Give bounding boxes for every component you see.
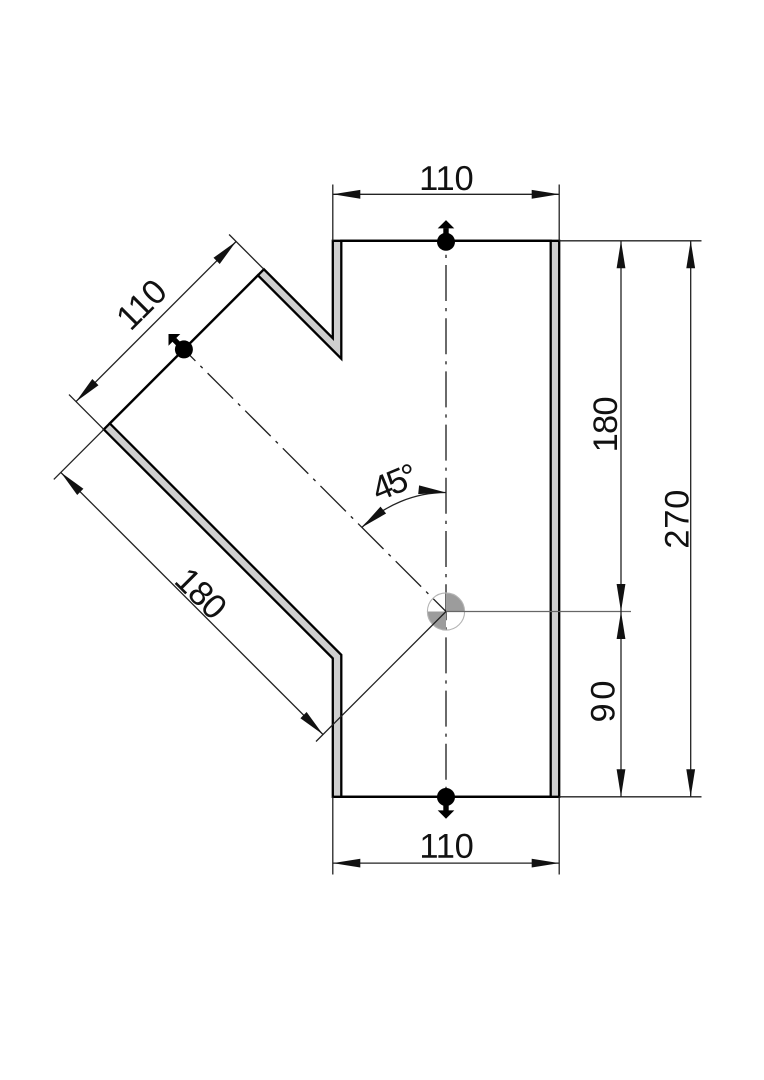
angle dimension arc 45deg [362, 493, 446, 528]
extension line at pipe bottom right [559, 796, 701, 798]
branch centerline (45 deg) [184, 349, 446, 611]
extension line from branch opening corner [54, 429, 104, 479]
node: top port [437, 233, 455, 251]
extension lines, bottom 110 dim [332, 797, 334, 875]
extension line from center point (45 deg down-left) [316, 612, 446, 742]
svg-text:110: 110 [419, 828, 474, 866]
dimension line 90 (right) [620, 612, 622, 797]
pipe wall fill (wye body) [104, 241, 559, 797]
pipe outer outline [104, 241, 559, 797]
pipe inner (bore) outline [110, 241, 551, 797]
extension line from center point to right [446, 611, 631, 613]
svg-text:270: 270 [659, 490, 697, 549]
dimension line 270 [690, 241, 692, 797]
dimension line, top 110 [333, 193, 559, 195]
centroid symbol at intersection point [427, 593, 464, 630]
svg-text:180: 180 [587, 396, 625, 452]
dimension line, bottom 110 [333, 862, 559, 864]
extension lines, top 110 dim [332, 185, 334, 241]
dimension line 180 (right) [620, 241, 622, 612]
svg-text:110: 110 [419, 160, 474, 198]
vertical centerline of main pipe [445, 242, 447, 797]
node: bottom port [437, 788, 455, 806]
extension lines, branch 110 dim [229, 235, 264, 270]
dimension line, branch 110 [76, 242, 236, 402]
node: branch port [175, 340, 193, 358]
dimension line, branch 180 [61, 472, 323, 734]
extension line at pipe top right [559, 240, 701, 242]
